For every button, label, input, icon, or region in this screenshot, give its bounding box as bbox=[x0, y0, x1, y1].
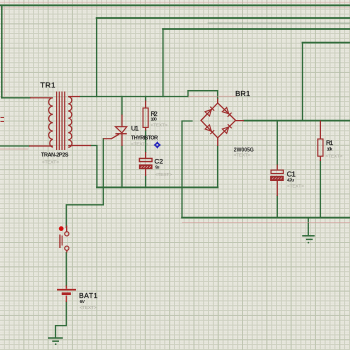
svg-text:<TEXT>: <TEXT> bbox=[80, 305, 97, 311]
capacitor C1 bbox=[271, 165, 284, 197]
wire rail1 y187 bbox=[97, 186, 218, 188]
faint ghost line y149 left bbox=[0, 148, 28, 150]
wire switch to battery bbox=[65, 253, 67, 286]
wire secondary-top riser bbox=[96, 18, 98, 97]
svg-text:4.7u: 4.7u bbox=[287, 177, 294, 182]
svg-text:BR1: BR1 bbox=[235, 89, 250, 98]
pin bottom bbox=[217, 138, 219, 146]
wire ground right stem bbox=[307, 218, 309, 236]
pin anode bbox=[121, 115, 123, 127]
wire C1 bottom drop bbox=[276, 196, 278, 218]
svg-text:<TEXT>: <TEXT> bbox=[234, 152, 251, 158]
gate bbox=[103, 134, 119, 139]
wire C1 top drop bbox=[276, 121, 278, 165]
wire riser x163 bbox=[162, 29, 164, 97]
pin cathode bbox=[121, 134, 123, 146]
wire TR1 primary bottom bbox=[0, 145, 29, 147]
ground right bbox=[302, 236, 315, 243]
svg-text:100: 100 bbox=[151, 117, 158, 122]
transformer TR1 bbox=[29, 92, 91, 151]
svg-text:TRAN-2P2S: TRAN-2P2S bbox=[41, 152, 69, 158]
cathode bar bbox=[115, 133, 126, 135]
svg-text:U1: U1 bbox=[131, 126, 139, 133]
pin primary top bbox=[30, 97, 53, 99]
diamond bbox=[201, 103, 236, 138]
wire R1 bottom drop bbox=[319, 161, 321, 218]
svg-text:<TEXT>: <TEXT> bbox=[287, 183, 304, 189]
battery BAT1 bbox=[57, 286, 76, 303]
wire battery to ground jog bbox=[56, 302, 67, 337]
wire C2 bottom drop bbox=[145, 176, 147, 187]
ghost pink line right of left border bbox=[3, 8, 5, 97]
wire left vertical to TR1 primary top bbox=[1, 5, 3, 97]
svg-text:10k: 10k bbox=[327, 146, 333, 151]
core bbox=[57, 92, 65, 151]
pin secondary top bbox=[68, 96, 80, 98]
wire top rail y18 bbox=[97, 17, 350, 19]
capacitor C2 bbox=[139, 152, 152, 176]
diode lower-left (points SE) bbox=[205, 125, 214, 134]
svg-text:<TEXT>: <TEXT> bbox=[131, 141, 148, 147]
svg-text:2W005G: 2W005G bbox=[234, 147, 254, 153]
pin top bbox=[217, 99, 219, 104]
bridge rectifier BR1 bbox=[201, 99, 244, 147]
svg-text:<TEXT>: <TEXT> bbox=[326, 153, 343, 159]
ghost pink line above border bbox=[0, 1, 350, 3]
wire top border horizontal bbox=[0, 4, 350, 6]
svg-text:THYRISTOR: THYRISTOR bbox=[131, 135, 158, 141]
wire rail y29 bbox=[163, 28, 350, 30]
svg-text:<TEXT>: <TEXT> bbox=[151, 123, 168, 129]
wire faint rail y23 bbox=[208, 22, 350, 24]
faint ghost riser x340 bbox=[339, 43, 341, 120]
wire rail2 y217 bbox=[182, 217, 350, 219]
ghost pink line below border bbox=[0, 7, 350, 9]
svg-text:9u: 9u bbox=[155, 165, 159, 170]
resistor R1 bbox=[318, 121, 323, 161]
pin primary bottom bbox=[29, 145, 53, 147]
resistor R2 bbox=[143, 101, 148, 131]
svg-text:6V: 6V bbox=[80, 299, 86, 304]
secondary winding bbox=[68, 97, 72, 148]
faint ghost line y96 under bridge bbox=[188, 95, 236, 97]
primary winding bbox=[49, 98, 53, 148]
wire AC net y96 bbox=[80, 96, 188, 98]
triangle bbox=[115, 127, 126, 133]
svg-text:<TEXT>: <TEXT> bbox=[42, 159, 59, 165]
diode lower-right (points NE) bbox=[222, 124, 231, 133]
clipped red fragment at left edge bbox=[1, 118, 5, 122]
wire U1 anode drop bbox=[121, 97, 123, 115]
wire switch top feed bbox=[66, 205, 103, 228]
svg-text:<TEXT>: <TEXT> bbox=[155, 172, 172, 178]
wire TR1 primary top bbox=[2, 97, 30, 99]
blue origin marker bbox=[154, 141, 161, 149]
wire R2 top stub bbox=[145, 97, 147, 101]
wire U1 cathode drop bbox=[121, 146, 123, 187]
wire sec bottom corner bbox=[91, 146, 97, 188]
pin right bbox=[236, 120, 244, 122]
switch SW bbox=[60, 226, 69, 253]
wire bridge left feed bbox=[182, 121, 192, 217]
diode upper-right (points SE) bbox=[222, 108, 231, 117]
thyristor U1 bbox=[103, 115, 127, 147]
red voltage dot bbox=[59, 226, 64, 231]
wire rail y42.5 bbox=[303, 42, 350, 44]
svg-text:TR1: TR1 bbox=[40, 81, 55, 90]
faint ghost line y222 bbox=[182, 222, 350, 224]
wire DC plus rail y120 bbox=[244, 120, 350, 122]
pin secondary bottom bbox=[68, 145, 91, 147]
wire jog up to bridge top bbox=[188, 91, 218, 99]
wire bridge bottom drop bbox=[217, 146, 219, 187]
ground bottom-left bbox=[48, 338, 63, 344]
wire riser x302 bbox=[302, 43, 304, 121]
wire gate drop x103 bbox=[102, 139, 104, 205]
wire R2-C2 link bbox=[145, 131, 147, 153]
diode upper-left (points NE) bbox=[205, 107, 214, 116]
